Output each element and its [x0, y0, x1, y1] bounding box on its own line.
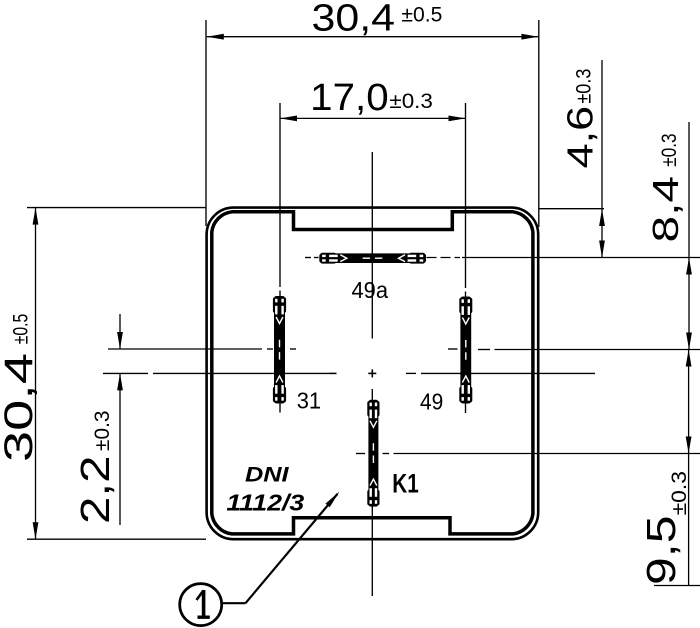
svg-text:±0.5: ±0.5: [9, 314, 32, 345]
svg-text:K1: K1: [392, 469, 419, 499]
svg-text:DNI: DNI: [245, 462, 290, 486]
svg-text:±0.3: ±0.3: [668, 471, 691, 515]
svg-text:31: 31: [297, 387, 321, 413]
svg-text:±0.3: ±0.3: [389, 90, 433, 113]
svg-text:8,4: 8,4: [645, 176, 686, 243]
svg-text:1112/3: 1112/3: [226, 489, 304, 515]
svg-text:±0.3: ±0.3: [91, 411, 114, 452]
svg-text:4,6: 4,6: [560, 106, 601, 169]
svg-text:±0.3: ±0.3: [572, 69, 595, 104]
svg-text:±0.5: ±0.5: [401, 4, 442, 27]
svg-text:2,2: 2,2: [72, 456, 118, 525]
svg-text:49a: 49a: [352, 277, 389, 303]
svg-text:30,4: 30,4: [312, 0, 396, 40]
svg-text:30,4: 30,4: [0, 353, 41, 462]
svg-text:17,0: 17,0: [310, 77, 389, 119]
svg-text:49: 49: [420, 389, 443, 415]
svg-text:9,5: 9,5: [638, 516, 684, 586]
svg-text:±0.3: ±0.3: [658, 133, 681, 166]
